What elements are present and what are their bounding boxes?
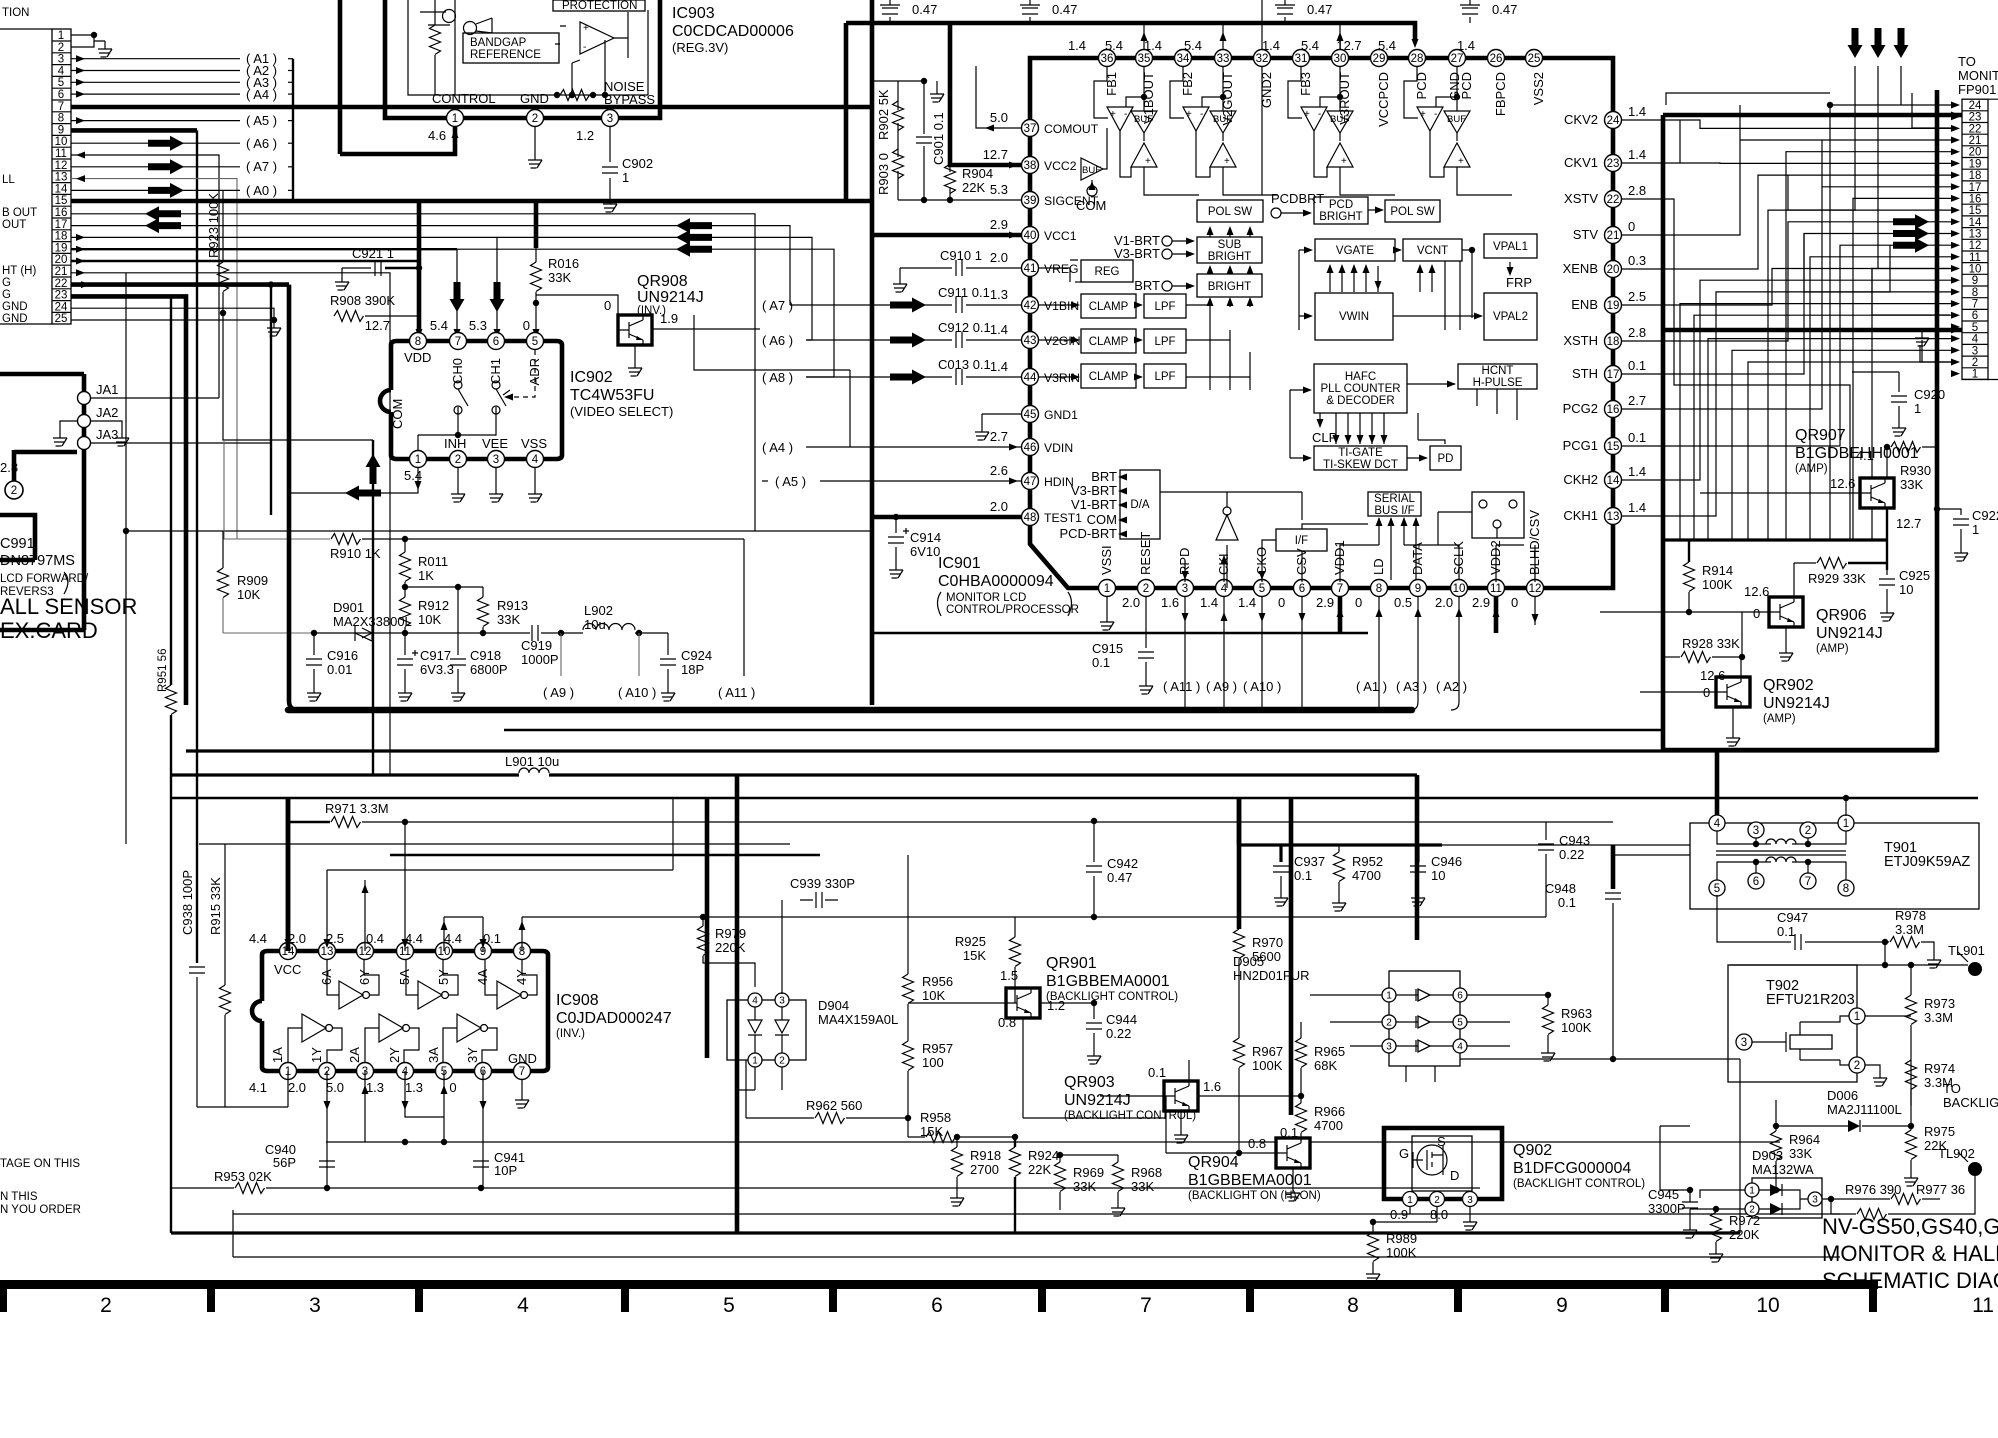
ruler ticks (0, 1289, 1877, 1312)
svg-text:6800P: 6800P (470, 662, 508, 677)
svg-text:R976 390: R976 390 (1845, 1182, 1901, 1197)
svg-text:LL: LL (2, 174, 15, 186)
pin 1 1A (249, 1047, 297, 1095)
svg-text:2: 2 (100, 1294, 112, 1317)
wire pin24 ground (71, 308, 281, 336)
svg-text:SERIAL: SERIAL (1374, 493, 1416, 505)
svg-text:ENB: ENB (1571, 297, 1598, 312)
svg-text:COM: COM (390, 399, 405, 429)
svg-text:25: 25 (1528, 53, 1541, 65)
svg-text:8: 8 (1843, 883, 1849, 895)
svg-text:1.3: 1.3 (990, 287, 1008, 302)
svg-text:R979: R979 (715, 926, 746, 941)
svg-text:10: 10 (1899, 582, 1913, 597)
svg-text:CKH1: CKH1 (1563, 508, 1598, 523)
svg-text:42: 42 (1024, 300, 1037, 312)
svg-text:R958: R958 (920, 1110, 951, 1125)
capacitor C921 1 (335, 246, 419, 290)
svg-text:( A5 ): ( A5 ) (775, 474, 806, 489)
transistor QR904 (1166, 1136, 1321, 1202)
wire weave (1622, 120, 1952, 516)
wire vgate arrows (1299, 247, 1483, 331)
svg-text:TO: TO (1943, 1081, 1961, 1096)
buffer COM (1076, 128, 1107, 213)
svg-text:3A: 3A (426, 1047, 441, 1063)
resistor R909 10K (218, 531, 269, 633)
svg-text:2: 2 (1972, 357, 1978, 369)
connector pin rows (52, 30, 71, 325)
svg-text:7: 7 (1972, 299, 1978, 311)
svg-text:(BACKLIGHT ON (H):ON): (BACKLIGHT ON (H):ON) (1188, 1190, 1321, 1202)
svg-text:MA4X159A0L: MA4X159A0L (818, 1012, 898, 1027)
svg-text:1.4: 1.4 (1144, 38, 1162, 53)
svg-text:0: 0 (1753, 606, 1760, 621)
svg-text:4.1: 4.1 (249, 1080, 267, 1095)
svg-text:46: 46 (1024, 442, 1037, 454)
svg-text:1.5: 1.5 (1000, 968, 1018, 983)
svg-text:15: 15 (55, 195, 68, 207)
svg-text:I/F: I/F (1295, 535, 1308, 547)
svg-text:0.4: 0.4 (366, 931, 384, 946)
svg-text:2.9: 2.9 (1472, 595, 1490, 610)
pin 20 XENB (1563, 253, 1646, 278)
svg-text:R974: R974 (1924, 1061, 1955, 1076)
node A3 (71, 75, 293, 90)
svg-text:1: 1 (452, 113, 458, 125)
svg-text:6: 6 (1753, 876, 1759, 888)
svg-text:VGATE: VGATE (1336, 245, 1374, 257)
svg-text:( A11 ): ( A11 ) (718, 685, 755, 700)
svg-text:R915 33K: R915 33K (208, 877, 223, 935)
svg-text:6: 6 (1457, 991, 1463, 1002)
wire serial bus (1160, 492, 1535, 582)
svg-text:( A11 ): ( A11 ) (1163, 679, 1200, 694)
svg-text:VREG: VREG (1044, 262, 1079, 276)
wire weave extra (1622, 93, 1952, 540)
svg-text:C911 0.1: C911 0.1 (938, 285, 990, 300)
svg-text:12.7: 12.7 (983, 147, 1008, 162)
svg-text:11: 11 (1972, 1294, 1994, 1317)
svg-text:0: 0 (1628, 219, 1635, 234)
resistor R972 220K (1709, 1206, 1760, 1262)
resistor R965 68K (1296, 1022, 1346, 1096)
svg-text:+: + (1341, 156, 1347, 167)
svg-text:0.01: 0.01 (327, 662, 352, 677)
svg-text:R975: R975 (1924, 1124, 1955, 1139)
block I/F (1276, 529, 1327, 551)
resistor R951 56 (157, 296, 177, 775)
connector CN (left, pins 1-25) (0, 29, 71, 324)
pin 9 4A (444, 931, 492, 985)
svg-text:TION: TION (2, 7, 29, 19)
svg-text:QR906: QR906 (1816, 607, 1867, 624)
svg-text:100K: 100K (1252, 1058, 1283, 1073)
svg-text:VDIN: VDIN (1044, 441, 1073, 455)
capacitor C925 10 (1879, 568, 1930, 621)
svg-text:0.1: 0.1 (1148, 1065, 1166, 1080)
svg-text:EX.CARD: EX.CARD (0, 618, 98, 643)
svg-text:33: 33 (1217, 53, 1230, 65)
svg-text:POL SW: POL SW (1390, 206, 1434, 218)
svg-text:R966: R966 (1314, 1104, 1345, 1119)
svg-text:0: 0 (1511, 595, 1518, 610)
svg-text:1: 1 (1407, 1195, 1413, 1206)
pin 39 SIGCENT (990, 182, 1099, 209)
svg-text:3: 3 (1972, 345, 1978, 357)
svg-text:MA2J11100L: MA2J11100L (1827, 1102, 1902, 1117)
svg-text:3.3M: 3.3M (1895, 922, 1924, 937)
svg-text:& DECODER: & DECODER (1326, 395, 1394, 407)
svg-text:1: 1 (752, 1056, 758, 1067)
node JA1 (78, 382, 220, 405)
svg-text:1.3: 1.3 (405, 1080, 423, 1095)
svg-text:IC908: IC908 (556, 992, 599, 1009)
svg-text:( A6 ): ( A6 ) (246, 136, 277, 151)
resistor R969 33K (1055, 1152, 1119, 1210)
svg-text:220K: 220K (1729, 1227, 1760, 1242)
svg-text:+: + (583, 23, 589, 34)
svg-text:N YOU ORDER: N YOU ORDER (0, 1204, 81, 1216)
block REG (1081, 260, 1133, 282)
svg-text:18P: 18P (681, 662, 704, 677)
block VPAL2 (1484, 293, 1537, 340)
svg-text:27: 27 (1451, 53, 1464, 65)
resistor R952 4700 (1332, 845, 1383, 911)
svg-text:7: 7 (455, 336, 461, 348)
svg-text:UN9214J: UN9214J (1064, 1092, 1131, 1109)
node A4 (762, 440, 1021, 455)
svg-text:POL SW: POL SW (1208, 206, 1252, 218)
inverter internal (1216, 492, 1238, 588)
svg-text:11: 11 (55, 148, 67, 160)
wire pin22 thick (71, 281, 289, 515)
svg-text:1.4: 1.4 (990, 322, 1008, 337)
capacitor C912 0.1 / node A6 (762, 320, 1021, 348)
svg-text:3.3M: 3.3M (1924, 1010, 1953, 1025)
wire bus y844 (199, 843, 790, 845)
block VGATE (1315, 239, 1395, 261)
svg-text:R977 36: R977 36 (1916, 1182, 1965, 1197)
pin 44 V3RIN (990, 359, 1080, 386)
svg-text:R909: R909 (237, 573, 268, 588)
svg-text:1A: 1A (270, 1047, 285, 1063)
svg-text:22K: 22K (1028, 1162, 1051, 1177)
svg-text:19: 19 (1969, 158, 1982, 170)
pin 40 VCC1 (990, 217, 1077, 244)
svg-text:3300P: 3300P (1648, 1201, 1686, 1216)
svg-text:13: 13 (1969, 229, 1982, 241)
ground GND1 (975, 414, 1021, 440)
pin 6 CSV (1278, 548, 1311, 610)
svg-text:2700: 2700 (970, 1162, 999, 1177)
svg-text:TL901: TL901 (1948, 943, 1985, 958)
resistor R011 1K (400, 539, 449, 587)
svg-text:4700: 4700 (1314, 1118, 1343, 1133)
pin 19 ENB (1571, 289, 1646, 314)
svg-text:TI-GATE: TI-GATE (1338, 447, 1383, 459)
svg-text:BUF: BUF (1213, 114, 1232, 125)
svg-text:1: 1 (1914, 401, 1921, 416)
svg-text:ALL SENSOR: ALL SENSOR (0, 594, 137, 619)
svg-text:R924: R924 (1028, 1148, 1059, 1163)
pin 34 FB2 (1144, 38, 1195, 96)
svg-text:3: 3 (58, 54, 64, 66)
capacitor C919 1000P (521, 625, 564, 667)
resistor R925 15K (955, 917, 1021, 987)
diode array D904 MA4X159A0L (727, 900, 898, 1090)
inverter gates bottom row (288, 1014, 342, 1062)
svg-text:PCDBRT: PCDBRT (1271, 191, 1324, 206)
svg-text:12.6: 12.6 (1700, 668, 1725, 683)
svg-text:33K: 33K (497, 612, 520, 627)
pin 10 SCLK (1435, 541, 1468, 610)
svg-text:R970: R970 (1252, 935, 1283, 950)
svg-text:31: 31 (1295, 53, 1308, 65)
svg-text:INH: INH (444, 436, 466, 451)
svg-text:-: - (1434, 109, 1437, 120)
svg-text:IC902: IC902 (570, 369, 613, 386)
capacitor C904 0.47 (1020, 0, 1077, 23)
svg-text:+: + (1420, 109, 1426, 120)
wire pin16 arrow left (71, 206, 755, 531)
svg-text:2: 2 (532, 113, 538, 125)
svg-text:JA3: JA3 (96, 427, 118, 442)
svg-text:8: 8 (58, 113, 64, 125)
svg-text:10K: 10K (418, 612, 441, 627)
pin 22 XSTV (1564, 183, 1646, 208)
pin 18 XSTH (1563, 325, 1646, 350)
svg-text:PCG1: PCG1 (1563, 438, 1598, 453)
IC991 label (0, 536, 89, 598)
svg-text:RESET: RESET (1138, 532, 1153, 575)
svg-text:20: 20 (1969, 147, 1982, 159)
svg-text:4.4: 4.4 (249, 931, 267, 946)
wire thick bus to pin5 (1663, 327, 1962, 334)
svg-text:VSSI: VSSI (1099, 545, 1114, 575)
svg-text:TAGE ON THIS: TAGE ON THIS (0, 1158, 80, 1170)
svg-text:G: G (1399, 1146, 1409, 1161)
svg-text:4: 4 (1714, 818, 1721, 830)
svg-text:C0JDAD000247: C0JDAD000247 (556, 1010, 672, 1027)
svg-text:D903: D903 (1752, 1148, 1783, 1163)
svg-text:3: 3 (779, 996, 785, 1007)
svg-text:9: 9 (1415, 583, 1421, 595)
resistor R978 3.3M (1885, 908, 1941, 968)
diode D901 MA2X33800L (223, 600, 530, 641)
svg-text:19: 19 (55, 242, 68, 254)
svg-text:VCCPCD: VCCPCD (1376, 72, 1391, 127)
lower left note text (0, 1158, 81, 1216)
svg-text:VEE: VEE (482, 436, 508, 451)
svg-text:4700: 4700 (1352, 868, 1381, 883)
svg-text:0.47: 0.47 (1307, 2, 1332, 17)
svg-text:BUF: BUF (1330, 114, 1349, 125)
pin 12 6Y (326, 931, 374, 985)
pin 24 CKV2 (1564, 104, 1646, 129)
node A4 (71, 87, 293, 102)
svg-text:8.0: 8.0 (1430, 1207, 1448, 1222)
svg-text:PD: PD (1438, 453, 1454, 465)
svg-text:47: 47 (1024, 476, 1037, 488)
capacitor C942 0.47 (1086, 818, 1138, 920)
wire vertical trunk 1663 (1661, 115, 1666, 750)
svg-text:VPAL1: VPAL1 (1493, 241, 1528, 253)
svg-text:15: 15 (1969, 205, 1982, 217)
svg-text:R962 560: R962 560 (806, 1098, 862, 1113)
ruler numbers (100, 1294, 1994, 1317)
op-amp U-IC903 outline (385, 0, 660, 118)
wire bus y775 + inductor L901 10u (171, 754, 1417, 775)
svg-text:2.5: 2.5 (326, 931, 344, 946)
svg-text:1K: 1K (418, 568, 434, 583)
pin 13 CKH1 (1563, 500, 1646, 525)
svg-text:12.6: 12.6 (1830, 476, 1855, 491)
svg-text:R978: R978 (1895, 908, 1926, 923)
svg-text:12.7: 12.7 (1336, 38, 1361, 53)
svg-text:UN9214J: UN9214J (637, 289, 704, 306)
svg-text:5.4: 5.4 (1301, 38, 1319, 53)
svg-text:3: 3 (493, 454, 499, 466)
pin 2 GND (520, 91, 549, 168)
svg-text:2.0: 2.0 (288, 931, 306, 946)
svg-text:2A: 2A (347, 1047, 362, 1063)
svg-text:( A1 ): ( A1 ) (1356, 679, 1387, 694)
node A2 (71, 63, 293, 78)
svg-text:5: 5 (1259, 583, 1265, 595)
svg-text:1.4: 1.4 (1628, 464, 1646, 479)
svg-text:10: 10 (1453, 583, 1466, 595)
node A0 (71, 183, 293, 198)
svg-text:SUB: SUB (1218, 239, 1242, 251)
svg-text:30: 30 (1334, 53, 1347, 65)
svg-text:5A: 5A (397, 969, 412, 985)
pin 12 BLHD/CSV (1511, 510, 1544, 610)
wire tl901 rail (1730, 962, 1975, 969)
svg-text:C917: C917 (420, 648, 451, 663)
capacitor C903 0.47 (880, 0, 937, 23)
svg-text:3: 3 (309, 1294, 321, 1317)
down block arrows top right (1848, 28, 1909, 268)
transistor QR906 (1600, 563, 1883, 661)
left edge truncated labels (2, 7, 37, 325)
svg-text:VWIN: VWIN (1339, 311, 1369, 323)
wire bus y750 (186, 749, 1937, 752)
svg-text:43: 43 (1024, 335, 1037, 347)
svg-text:R904: R904 (962, 166, 993, 181)
svg-text:C945: C945 (1648, 1187, 1679, 1202)
svg-text:8: 8 (1972, 287, 1978, 299)
svg-text:7: 7 (1337, 583, 1343, 595)
svg-text:2: 2 (1805, 825, 1811, 837)
svg-text:0.8: 0.8 (998, 1015, 1016, 1030)
svg-text:QR907: QR907 (1795, 427, 1846, 444)
wire pin23 thick (71, 296, 186, 705)
svg-text:0.1: 0.1 (1628, 358, 1646, 373)
pin 4 CKI (1200, 553, 1233, 610)
svg-text:JA1: JA1 (96, 382, 118, 397)
svg-text:4: 4 (517, 1294, 529, 1317)
svg-text:4: 4 (58, 65, 65, 77)
resistor R989 100K (1366, 1219, 1417, 1282)
svg-text:40: 40 (1024, 230, 1037, 242)
svg-text:QR902: QR902 (1763, 677, 1814, 694)
svg-text:BRIGHT: BRIGHT (1319, 211, 1362, 223)
svg-text:PCD: PCD (1329, 199, 1353, 211)
svg-text:2.0: 2.0 (1122, 595, 1140, 610)
pin 26 FBPCD (1457, 38, 1508, 116)
wire pin7 thick bus (71, 105, 872, 110)
svg-text:3: 3 (1467, 1195, 1473, 1206)
pin 25 VSS2 (1526, 50, 1547, 106)
svg-text:C991: C991 (0, 536, 35, 552)
wire VCC1 (872, 232, 1021, 239)
MOSFET Q902 (1373, 1128, 1502, 1230)
svg-text:1.6: 1.6 (1161, 595, 1179, 610)
svg-text:5.3: 5.3 (469, 318, 487, 333)
pin 29 VCCPCD (1336, 38, 1391, 127)
wire pin9 thick (71, 130, 197, 963)
capacitor C939 330P (790, 876, 855, 908)
pin 27 GND PCD (1447, 50, 1474, 101)
svg-text:( A3 ): ( A3 ) (1396, 679, 1427, 694)
svg-text:3: 3 (1753, 825, 1759, 837)
svg-text:15: 15 (1607, 441, 1620, 453)
label TO MONITOR FP901 (1958, 54, 1998, 97)
svg-text:STH: STH (1572, 366, 1598, 381)
svg-text:32: 32 (1256, 53, 1269, 65)
pin 37 COMOUT (990, 110, 1099, 137)
wire SIGCENT (898, 197, 1021, 203)
transistor QR903 (1064, 1060, 1301, 1143)
svg-text:2.6: 2.6 (990, 463, 1008, 478)
svg-text:PCD: PCD (1414, 72, 1429, 99)
svg-text:3: 3 (1386, 1042, 1392, 1053)
pin 1 VSSI (1099, 545, 1116, 596)
wire mid horizontal (123, 528, 872, 534)
wire bus y730 (504, 729, 1663, 731)
svg-text:GND: GND (508, 1051, 537, 1066)
pin 11 VDD2 (1472, 540, 1505, 610)
svg-text:2.7: 2.7 (1628, 393, 1646, 408)
svg-text:QR908: QR908 (637, 273, 688, 290)
svg-text:BUF: BUF (1082, 165, 1101, 176)
svg-text:(BACKLIGHT CONTROL): (BACKLIGHT CONTROL) (1046, 991, 1178, 1003)
pin 4 2Y (366, 1047, 414, 1095)
svg-text:0: 0 (1355, 595, 1362, 610)
svg-text:5.3: 5.3 (990, 182, 1008, 197)
svg-text:10: 10 (1756, 1294, 1779, 1317)
svg-text:UN9214J: UN9214J (1763, 695, 1830, 712)
svg-text:8: 8 (1347, 1294, 1359, 1317)
svg-text:23: 23 (55, 290, 68, 302)
svg-text:( A5 ): ( A5 ) (246, 113, 277, 128)
capacitor C946 10 (1410, 845, 1462, 906)
capacitor C947 0.1 (1717, 895, 1888, 950)
svg-text:100K: 100K (1561, 1020, 1592, 1035)
svg-text:COM: COM (1076, 198, 1106, 213)
resistor R962 560 (746, 1060, 908, 1124)
svg-text:29: 29 (1373, 53, 1386, 65)
wire vertical trunk 1937 (1665, 90, 1937, 750)
label IC903 (672, 5, 794, 55)
block BRIGHT (1197, 274, 1262, 297)
pin 10 5Y (405, 931, 453, 985)
svg-text:R989: R989 (1386, 1231, 1417, 1246)
svg-text:TL902: TL902 (1938, 1146, 1975, 1161)
pin 9 DATA (1394, 542, 1427, 610)
svg-text:( A8 ): ( A8 ) (762, 370, 793, 385)
svg-text:1: 1 (58, 30, 64, 42)
